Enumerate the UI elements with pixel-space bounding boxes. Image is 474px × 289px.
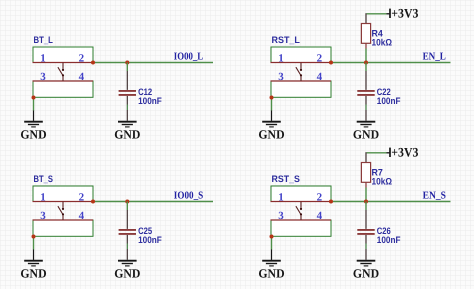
svg-text:+3V3: +3V3 bbox=[391, 6, 419, 21]
svg-text:2: 2 bbox=[317, 53, 323, 65]
svg-text:100nF: 100nF bbox=[377, 234, 401, 245]
svg-text:3: 3 bbox=[278, 71, 284, 83]
wire net EN_S bbox=[331, 201, 451, 203]
ground under C12 label GND bbox=[114, 128, 140, 142]
svg-text:+3V3: +3V3 bbox=[391, 145, 419, 160]
junction at BT_S pin 2 bbox=[91, 200, 95, 204]
ground under C22 symbol bbox=[357, 122, 376, 127]
ground under RST_S label GND bbox=[258, 267, 284, 281]
wire RST_S pin 3 to ground bbox=[271, 237, 273, 260]
svg-text:1: 1 bbox=[278, 53, 284, 65]
junction at C26 tap bbox=[364, 200, 368, 204]
ground under C26 symbol bbox=[357, 261, 376, 266]
svg-text:RST_S: RST_S bbox=[272, 173, 300, 184]
svg-text:GND: GND bbox=[353, 128, 379, 142]
svg-text:GND: GND bbox=[20, 267, 46, 281]
svg-text:4: 4 bbox=[317, 71, 323, 83]
wire from net to C22 bbox=[365, 63, 367, 72]
switch RST_L designator RST_L bbox=[272, 34, 301, 45]
switch BT_L pin number 2 bbox=[79, 53, 85, 65]
ground under C12 symbol bbox=[118, 122, 137, 127]
wire RST_L pin 3 to ground bbox=[271, 98, 273, 121]
capacitor C25 designator C25 bbox=[138, 225, 152, 236]
wire net EN_L bbox=[331, 62, 451, 64]
junction at RST_S pin 2 bbox=[329, 200, 333, 204]
capacitor C25 value 100nF bbox=[138, 234, 162, 245]
switch RST_S actuator bbox=[296, 202, 302, 221]
wire R7 to net bbox=[365, 188, 367, 202]
power net label +3V3 bbox=[391, 145, 419, 160]
wire from net to C25 bbox=[126, 202, 128, 211]
resistor R7 designator R7 bbox=[372, 167, 383, 178]
ground under RST_S symbol bbox=[262, 261, 281, 266]
switch BT_L designator BT_L bbox=[34, 34, 54, 45]
svg-text:100nF: 100nF bbox=[138, 95, 162, 106]
svg-text:EN_S: EN_S bbox=[423, 191, 446, 202]
power port +3V3 for R4 bbox=[367, 9, 390, 18]
wire net IO00_L bbox=[93, 62, 213, 64]
svg-text:3: 3 bbox=[40, 71, 46, 83]
junction at RST_L pin 3 bbox=[270, 96, 274, 100]
switch BT_L pins 3-4 line bbox=[33, 80, 94, 82]
wire +3V3 to R7 bbox=[365, 152, 367, 162]
svg-text:4: 4 bbox=[79, 210, 85, 222]
switch BT_L pin number 4 bbox=[79, 71, 85, 83]
switch BT_S pins 1-2 line bbox=[33, 201, 94, 203]
svg-text:GND: GND bbox=[258, 267, 284, 281]
svg-text:GND: GND bbox=[114, 128, 140, 142]
switch RST_L pin number 3 bbox=[278, 71, 284, 83]
switch BT_L pin number 1 bbox=[40, 53, 46, 65]
svg-text:IO00_S: IO00_S bbox=[174, 191, 204, 202]
switch RST_S designator RST_S bbox=[272, 173, 300, 184]
ground under C22 label GND bbox=[353, 128, 379, 142]
junction at C22 tap bbox=[364, 61, 368, 65]
junction at BT_L pin 2 bbox=[91, 61, 95, 65]
switch RST_S pin number 3 bbox=[278, 210, 284, 222]
wire R4 to net bbox=[365, 49, 367, 63]
net label IO00_S bbox=[174, 191, 204, 202]
switch RST_S pin number 2 bbox=[317, 192, 323, 204]
switch RST_L pin number 2 bbox=[317, 53, 323, 65]
svg-text:4: 4 bbox=[317, 210, 323, 222]
switch BT_S body top rectangle bbox=[33, 186, 93, 202]
switch RST_L pins 1-2 line bbox=[271, 62, 332, 64]
capacitor C26 value 100nF bbox=[377, 234, 401, 245]
capacitor C25 bbox=[119, 210, 136, 260]
junction at C25 tap bbox=[125, 200, 129, 204]
switch RST_S pins 3-4 line bbox=[271, 219, 332, 221]
svg-text:3: 3 bbox=[278, 210, 284, 222]
switch BT_S pin number 4 bbox=[79, 210, 85, 222]
ground under RST_L label GND bbox=[258, 128, 284, 142]
svg-text:10kΩ: 10kΩ bbox=[372, 36, 393, 47]
switch BT_L body top rectangle bbox=[33, 47, 93, 63]
switch BT_L actuator bbox=[58, 63, 64, 82]
svg-text:100nF: 100nF bbox=[377, 95, 401, 106]
resistor R4 value 10k&#937; bbox=[372, 36, 393, 47]
switch RST_S pin number 4 bbox=[317, 210, 323, 222]
switch BT_L pin number 3 bbox=[40, 71, 46, 83]
capacitor C22 bbox=[357, 71, 374, 121]
ground under C26 label GND bbox=[353, 267, 379, 281]
capacitor C12 bbox=[119, 71, 136, 121]
wire net IO00_S bbox=[93, 201, 213, 203]
svg-text:1: 1 bbox=[278, 192, 284, 204]
ground under BT_L label GND bbox=[20, 128, 46, 142]
power net label +3V3 bbox=[391, 6, 419, 21]
switch RST_L actuator bbox=[296, 63, 302, 82]
net label EN_L bbox=[423, 52, 446, 63]
svg-text:GND: GND bbox=[258, 128, 284, 142]
switch BT_S pin number 2 bbox=[79, 192, 85, 204]
switch RST_L body bottom rectangle bbox=[271, 81, 331, 97]
resistor R7 bbox=[361, 163, 370, 188]
ground under C25 symbol bbox=[118, 261, 137, 266]
capacitor C26 bbox=[357, 210, 374, 260]
switch BT_S actuator bbox=[58, 202, 64, 221]
switch BT_S pin number 3 bbox=[40, 210, 46, 222]
svg-text:IO00_L: IO00_L bbox=[174, 52, 203, 63]
switch RST_S pin number 1 bbox=[278, 192, 284, 204]
switch RST_L pin number 4 bbox=[317, 71, 323, 83]
capacitor C12 designator C12 bbox=[138, 86, 152, 97]
resistor R7 value 10k&#937; bbox=[372, 175, 393, 186]
switch BT_S pins 3-4 line bbox=[33, 219, 94, 221]
svg-text:BT_S: BT_S bbox=[34, 173, 53, 184]
svg-text:GND: GND bbox=[20, 128, 46, 142]
switch BT_L body bottom rectangle bbox=[33, 81, 93, 97]
wire from net to C12 bbox=[126, 63, 128, 72]
svg-text:1: 1 bbox=[40, 192, 46, 204]
svg-text:4: 4 bbox=[79, 71, 85, 83]
junction at C12 tap bbox=[125, 61, 129, 65]
ground under C25 label GND bbox=[114, 267, 140, 281]
svg-text:100nF: 100nF bbox=[138, 234, 162, 245]
svg-text:2: 2 bbox=[317, 192, 323, 204]
resistor R4 designator R4 bbox=[372, 28, 384, 39]
net label EN_S bbox=[423, 191, 446, 202]
junction at BT_L pin 3 bbox=[32, 96, 36, 100]
wire from net to C26 bbox=[365, 202, 367, 211]
ground under BT_S label GND bbox=[20, 267, 46, 281]
junction at RST_S pin 3 bbox=[270, 235, 274, 239]
resistor R4 bbox=[361, 24, 370, 49]
power port +3V3 for R7 bbox=[367, 148, 390, 157]
ground under RST_L symbol bbox=[262, 122, 281, 127]
wire BT_L pin 3 to ground bbox=[33, 98, 35, 121]
switch RST_S body top rectangle bbox=[271, 186, 331, 202]
svg-text:GND: GND bbox=[353, 267, 379, 281]
ground under BT_L symbol bbox=[24, 122, 43, 127]
wire BT_S pin 3 to ground bbox=[33, 237, 35, 260]
switch RST_L body top rectangle bbox=[271, 47, 331, 63]
switch BT_L pins 1-2 line bbox=[33, 62, 94, 64]
svg-text:3: 3 bbox=[40, 210, 46, 222]
svg-text:BT_L: BT_L bbox=[34, 34, 54, 45]
junction at RST_L pin 2 bbox=[329, 61, 333, 65]
switch BT_S body bottom rectangle bbox=[33, 220, 93, 236]
capacitor C22 value 100nF bbox=[377, 95, 401, 106]
wire +3V3 to R4 bbox=[365, 13, 367, 23]
svg-text:10kΩ: 10kΩ bbox=[372, 175, 393, 186]
junction at BT_S pin 3 bbox=[32, 235, 36, 239]
switch RST_S body bottom rectangle bbox=[271, 220, 331, 236]
ground under BT_S symbol bbox=[24, 261, 43, 266]
switch RST_S pins 1-2 line bbox=[271, 201, 332, 203]
switch RST_L pins 3-4 line bbox=[271, 80, 332, 82]
capacitor C22 designator C22 bbox=[377, 86, 391, 97]
svg-text:2: 2 bbox=[79, 192, 85, 204]
svg-text:2: 2 bbox=[79, 53, 85, 65]
svg-text:GND: GND bbox=[114, 267, 140, 281]
svg-text:EN_L: EN_L bbox=[423, 52, 446, 63]
switch RST_L pin number 1 bbox=[278, 53, 284, 65]
svg-text:RST_L: RST_L bbox=[272, 34, 301, 45]
capacitor C26 designator C26 bbox=[377, 225, 391, 236]
switch BT_S designator BT_S bbox=[34, 173, 53, 184]
capacitor C12 value 100nF bbox=[138, 95, 162, 106]
net label IO00_L bbox=[174, 52, 203, 63]
svg-text:1: 1 bbox=[40, 53, 46, 65]
switch BT_S pin number 1 bbox=[40, 192, 46, 204]
